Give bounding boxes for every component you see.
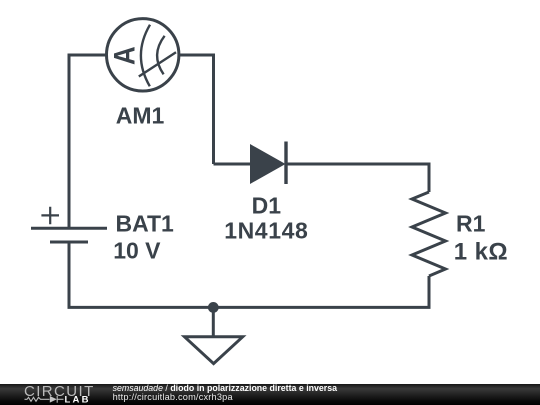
wire diode anode lead (214, 163, 251, 166)
svg-text:AM1: AM1 (116, 103, 165, 129)
logo resistor squiggle and wire (25, 396, 64, 403)
wire ammeter to top-right corner, down to diode anode node (180, 55, 214, 164)
svg-text:BAT1: BAT1 (116, 210, 175, 236)
logo wire to LAB (58, 398, 64, 400)
ammeter AM1 (107, 19, 179, 91)
footer title text (113, 383, 337, 393)
svg-text:1 kΩ: 1 kΩ (454, 238, 508, 265)
battery positive plate (31, 227, 107, 230)
logo diode cathode bar (56, 396, 58, 403)
ammeter scale arc inner (157, 36, 165, 75)
svg-text:1N4148: 1N4148 (224, 218, 308, 244)
circuitlab logo (0, 384, 110, 405)
svg-text:D1: D1 (252, 193, 282, 219)
wire resistor bottom lead (428, 276, 431, 307)
logo diode triangle (50, 396, 57, 403)
wire top-left horizontal (battery + to ammeter) (69, 54, 106, 57)
svg-text:A: A (108, 46, 141, 65)
ammeter scale arc outer (141, 25, 150, 87)
ammeter needle (139, 52, 176, 76)
footer bar (0, 384, 540, 405)
wire diode cathode to top-right corner and down to resistor (286, 164, 431, 192)
svg-text:R1: R1 (456, 211, 486, 237)
wire bottom rail (68, 306, 431, 309)
diode cathode bar (284, 142, 287, 185)
wire left vertical (top corner down to battery + plate) (68, 54, 71, 229)
battery plus sign (41, 207, 59, 225)
wire battery - plate down to bottom rail (68, 242, 71, 307)
junction node (ground tap on bottom rail) (208, 302, 219, 313)
svg-text:LAB: LAB (65, 395, 91, 405)
svg-text:10 V: 10 V (113, 237, 161, 263)
ground (185, 307, 243, 363)
ground triangle (185, 337, 243, 364)
footer url text (113, 392, 233, 402)
ammeter body circle (107, 19, 179, 91)
resistor R1 zigzag (412, 192, 446, 276)
battery negative plate (50, 241, 88, 244)
ground stub wire (212, 307, 215, 336)
diode anode triangle (250, 144, 286, 184)
battery BAT1 (31, 207, 107, 242)
diode D1 (250, 142, 286, 185)
